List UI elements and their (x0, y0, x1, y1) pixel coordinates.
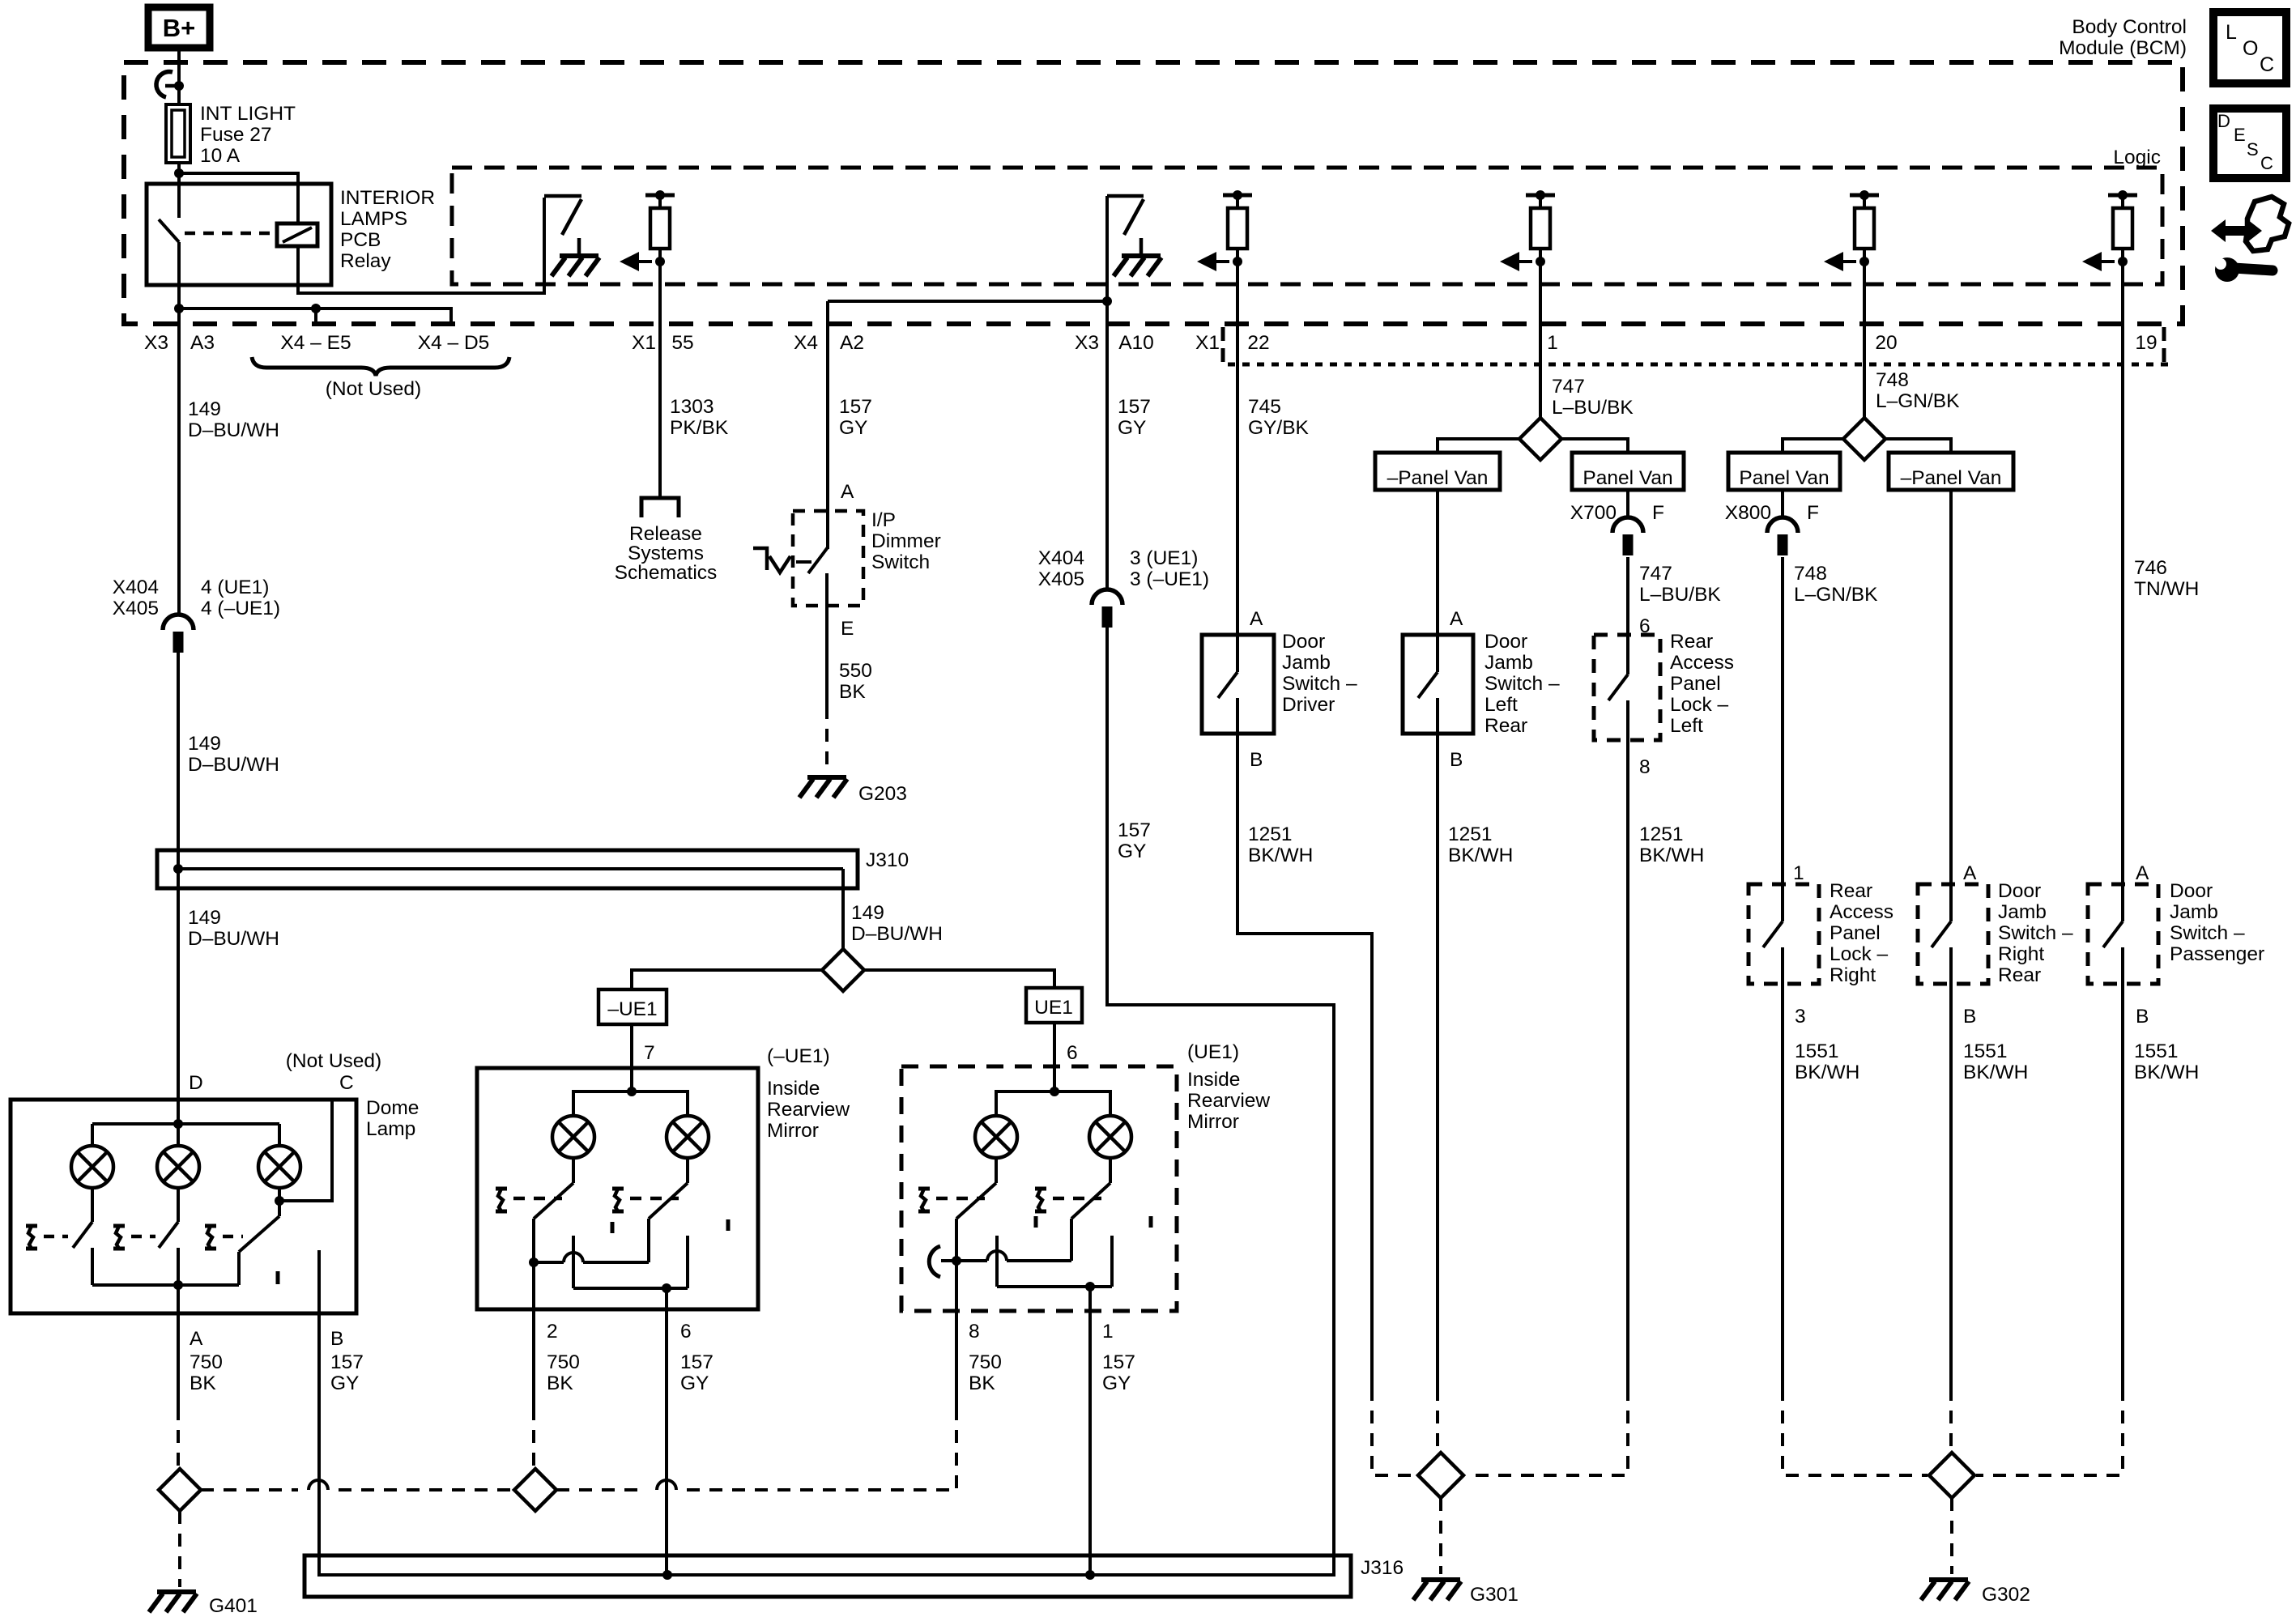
svg-text:BK: BK (190, 1372, 216, 1394)
mirror1 fixed contacts to pin6 (572, 1236, 575, 1288)
svg-text:1551: 1551 (1795, 1040, 1839, 1062)
svg-text:748: 748 (1876, 369, 1909, 391)
svg-text:A: A (2136, 862, 2149, 884)
svg-text:Rear: Rear (1830, 880, 1872, 902)
svg-text:Switch –: Switch – (1282, 673, 1357, 695)
wire 1251 BK/WH left rear (1436, 760, 1439, 1388)
svg-text:GY: GY (1102, 1372, 1131, 1394)
svg-text:Fuse 27: Fuse 27 (200, 124, 272, 146)
svg-text:Lock –: Lock – (1830, 943, 1889, 965)
svg-text:Passenger: Passenger (2170, 943, 2264, 965)
svg-text:750: 750 (969, 1351, 1002, 1373)
svg-text:A2: A2 (840, 332, 864, 354)
svg-text:20: 20 (1875, 332, 1897, 354)
wire Panel Van to X700 (1626, 490, 1629, 517)
I/P dimmer switch dashed box (793, 511, 863, 606)
BCM driver resistor pin 1 (1500, 190, 1555, 271)
svg-text:E: E (2234, 125, 2246, 145)
dimmer wiper arrow (753, 548, 767, 570)
svg-text:–UE1: –UE1 (607, 998, 657, 1020)
svg-text:A3: A3 (190, 332, 215, 354)
svg-text:4 (UE1): 4 (UE1) (201, 577, 269, 598)
svg-text:L–GN/BK: L–GN/BK (1794, 584, 1878, 606)
mirror2 tick marks (1034, 1216, 1038, 1228)
BCM driver resistor pin 19 (2082, 190, 2137, 271)
svg-text:Panel: Panel (1670, 673, 1721, 695)
wire 1251 BK/WH rear access left (1626, 767, 1629, 1388)
wire 157 GY pin A10 (1105, 196, 1109, 589)
svg-text:G203: G203 (858, 783, 907, 805)
svg-text:L–BU/BK: L–BU/BK (1639, 584, 1721, 606)
svg-text:Access: Access (1830, 901, 1893, 923)
svg-text:Systems: Systems (628, 543, 704, 564)
svg-text:B: B (1450, 749, 1463, 771)
svg-text:C: C (2260, 153, 2273, 173)
dome pin B wire (317, 1250, 321, 1577)
svg-text:1: 1 (1547, 332, 1558, 354)
svg-text:747: 747 (1639, 563, 1672, 585)
svg-text:Dimmer: Dimmer (871, 530, 941, 552)
connector X404/X405 on 149 wire (163, 615, 194, 653)
svg-text:1: 1 (1102, 1321, 1114, 1343)
svg-text:B: B (2136, 1006, 2149, 1028)
svg-text:Jamb: Jamb (1485, 652, 1533, 674)
splice diamond dome ground (159, 1469, 201, 1511)
wire 746 TN/WH pin 19 (2121, 262, 2124, 886)
wire 1551 BK/WH right (2121, 1011, 2124, 1388)
dome actuator E 1 (26, 1226, 37, 1249)
dome lamp 1 (71, 1146, 113, 1188)
svg-text:Body Control: Body Control (2072, 16, 2187, 38)
wire B+ to fuse (177, 51, 181, 104)
svg-text:F: F (1652, 502, 1664, 524)
svg-text:1551: 1551 (1963, 1040, 2008, 1062)
ground G401 (149, 1592, 197, 1612)
svg-text:C: C (339, 1072, 354, 1094)
svg-text:Release: Release (629, 523, 702, 545)
mirror2 fixed contacts to pin1 (995, 1236, 999, 1287)
wire A10 continues (1105, 628, 1109, 1006)
dashed pin8 to ground bus (955, 1407, 958, 1490)
mirror1 feed split (627, 1087, 637, 1096)
svg-text:TN/WH: TN/WH (2134, 578, 2199, 600)
svg-text:(–UE1): (–UE1) (767, 1045, 830, 1067)
svg-text:S: S (2247, 139, 2259, 160)
mirror1 right switch (686, 1158, 689, 1183)
svg-text:(Not Used): (Not Used) (286, 1050, 381, 1072)
svg-text:Access: Access (1670, 652, 1734, 674)
wire pin1 157 GY to J316 (1088, 1287, 1092, 1577)
svg-text:Switch –: Switch – (1485, 673, 1560, 695)
svg-text:149: 149 (188, 907, 221, 929)
svg-text:Module (BCM): Module (BCM) (2059, 37, 2187, 59)
svg-text:157: 157 (1118, 819, 1151, 841)
driver switch stub and blade (1236, 635, 1239, 672)
svg-text:–Panel Van: –Panel Van (1901, 467, 2002, 489)
svg-text:3 (UE1): 3 (UE1) (1130, 547, 1198, 569)
dome actuator E 2 (113, 1226, 125, 1249)
mirror2 lamp left (975, 1116, 1017, 1158)
dashed pin A to splice G401 (177, 1407, 180, 1469)
svg-text:X4 – E5: X4 – E5 (280, 332, 351, 354)
wire -Panel Van right to door jamb right rear (1949, 490, 1953, 886)
svg-text:19: 19 (2135, 332, 2157, 354)
mirror2 blade bus to pin8 (952, 1256, 961, 1266)
junction dot A3/X4 link (174, 304, 184, 313)
fuse INT LIGHT Fuse 27 10A (166, 104, 190, 163)
dashed down to G302 splice (1949, 1388, 1953, 1451)
svg-text:B: B (1963, 1006, 1976, 1028)
junction dot J316 left (662, 1570, 672, 1580)
svg-text:Logic: Logic (2113, 147, 2161, 168)
svg-text:X404: X404 (1038, 547, 1084, 569)
svg-text:GY: GY (1118, 840, 1146, 862)
wire 1551 BK/WH middle (1949, 1011, 1953, 1388)
wire 1551 BK/WH right 1 (1781, 1011, 1784, 1388)
dome switch 1 (91, 1188, 94, 1222)
svg-text:D–BU/WH: D–BU/WH (188, 754, 279, 776)
splice bus J310 (157, 850, 858, 888)
svg-text:Switch: Switch (871, 551, 930, 573)
svg-text:X405: X405 (1038, 568, 1084, 590)
svg-text:3: 3 (1795, 1006, 1806, 1028)
mirror2 actuator E left (918, 1189, 930, 1211)
connector strip dotted line below BCM (1228, 363, 2172, 367)
svg-text:GY/BK: GY/BK (1248, 417, 1310, 439)
off-page connector to Release Systems (641, 498, 679, 517)
svg-text:C: C (2260, 53, 2274, 76)
svg-text:157: 157 (680, 1351, 714, 1373)
mirror1 left switch (572, 1158, 575, 1183)
left rear switch stub and blade (1436, 635, 1439, 672)
svg-text:G302: G302 (1982, 1584, 2030, 1606)
svg-text:Left: Left (1485, 694, 1518, 716)
svg-text:Door: Door (1998, 880, 2041, 902)
dashed drop left rear to G301 (1436, 1388, 1439, 1454)
svg-text:O: O (2243, 37, 2258, 60)
svg-text:BK: BK (547, 1372, 573, 1394)
svg-text:747: 747 (1552, 376, 1585, 398)
dashed ground bus dome to mirrors (201, 1488, 298, 1491)
wire to Panel Van right (1783, 439, 1843, 454)
svg-text:PK/BK: PK/BK (670, 417, 729, 439)
ground G203 (799, 777, 847, 798)
svg-text:2: 2 (547, 1321, 558, 1343)
dimmer switch blade (808, 547, 828, 573)
svg-text:I/P: I/P (871, 509, 896, 531)
ground G302 (1921, 1580, 1969, 1600)
svg-text:Relay: Relay (340, 250, 391, 272)
svg-text:750: 750 (547, 1351, 580, 1373)
Body Control Module (BCM) dashed outline (124, 62, 2183, 324)
relay box INTERIOR LAMPS PCB Relay (147, 184, 331, 285)
relay output wire to A3 (177, 242, 181, 615)
wire pin2 750 BK (532, 1262, 535, 1407)
dashed pin2 to splice (532, 1407, 535, 1467)
svg-text:Right: Right (1998, 943, 2044, 965)
svg-text:6: 6 (1067, 1042, 1078, 1064)
service icon arrow (2211, 219, 2262, 242)
svg-text:BK: BK (969, 1372, 995, 1394)
Panel Van option box (1572, 453, 1684, 490)
svg-text:Jamb: Jamb (1998, 901, 2047, 923)
svg-text:Jamb: Jamb (2170, 901, 2218, 923)
svg-text:B: B (330, 1328, 343, 1350)
mirror1 lamp left (552, 1116, 594, 1158)
relay coil (277, 223, 317, 246)
dome actuator E 3 (205, 1226, 216, 1249)
wire 748 pin 20 (1863, 262, 1866, 419)
wire to -Panel Van right (1885, 439, 1951, 454)
splice diamond mirror1 ground (514, 1469, 556, 1511)
svg-text:1251: 1251 (1448, 823, 1493, 845)
svg-text:157: 157 (1118, 396, 1151, 418)
DESC link icon (2213, 109, 2286, 178)
wire 748 to rear access right (1781, 557, 1784, 886)
svg-text:B+: B+ (163, 14, 196, 42)
svg-text:Panel Van: Panel Van (1739, 467, 1829, 489)
wire 149 D-BU/WH (177, 653, 180, 1101)
relay linkage dashes (185, 232, 275, 236)
svg-text:Lamp: Lamp (366, 1118, 415, 1140)
svg-text:GY: GY (680, 1372, 709, 1394)
svg-text:D: D (2217, 111, 2230, 131)
svg-text:A: A (190, 1328, 203, 1350)
svg-text:Schematics: Schematics (615, 562, 718, 584)
door jamb switch right rear dashed box (1918, 884, 1988, 984)
B+ power symbol (148, 7, 210, 48)
svg-text:INTERIOR: INTERIOR (340, 187, 435, 209)
svg-text:Switch –: Switch – (2170, 922, 2245, 944)
svg-text:–Panel Van: –Panel Van (1387, 467, 1489, 489)
svg-text:A: A (1963, 862, 1977, 884)
brace not used (252, 357, 509, 376)
dome lamp box (11, 1100, 356, 1313)
svg-text:Mirror: Mirror (767, 1120, 819, 1142)
dome bottom bus to pin A (92, 1283, 239, 1287)
logic ground switch for relay (544, 196, 581, 256)
svg-text:157: 157 (1102, 1351, 1135, 1373)
relay coil return wire to logic switch (298, 198, 544, 293)
connector X700 F (1612, 517, 1643, 555)
svg-text:157: 157 (839, 396, 872, 418)
wire 1251 BK/WH driver (1237, 760, 1372, 1388)
mirror1 blade bus to pin2 (529, 1257, 539, 1267)
svg-text:LAMPS: LAMPS (340, 208, 407, 230)
svg-text:X404: X404 (113, 577, 159, 598)
wire pin8 750 BK (955, 1261, 958, 1407)
-Panel Van option box (1375, 453, 1500, 490)
svg-text:BK/WH: BK/WH (1795, 1062, 1859, 1083)
svg-text:149: 149 (188, 398, 221, 420)
wire 747 pin 1 (1539, 262, 1542, 419)
svg-text:BK/WH: BK/WH (1963, 1062, 2028, 1083)
dashed dome splice to G401 (178, 1511, 181, 1587)
rear access panel lock right dashed box (1749, 884, 1819, 984)
splice bus J316 (305, 1555, 1351, 1597)
wire -Panel Van to door jamb left rear (1436, 490, 1439, 636)
BCM driver resistor pin 55 (620, 190, 675, 271)
splice diamond G302 (1929, 1453, 1974, 1498)
mirror1 lamp right (667, 1116, 709, 1158)
dome lamp3 to C circuit (278, 1188, 281, 1216)
svg-text:X3: X3 (144, 332, 168, 354)
dashed down to ground G301 (1439, 1498, 1442, 1574)
svg-text:GY: GY (839, 417, 867, 439)
door jamb switch left rear box (1403, 635, 1473, 734)
Panel Van option box right (1728, 453, 1840, 490)
wire A10 to J316 (1107, 1005, 1334, 1577)
svg-text:Rear: Rear (1670, 631, 1713, 653)
svg-text:4 (–UE1): 4 (–UE1) (201, 598, 280, 619)
svg-text:157: 157 (330, 1351, 364, 1373)
svg-text:A10: A10 (1118, 332, 1154, 354)
dashed corner to G302 (1783, 1388, 1928, 1475)
svg-text:X4: X4 (794, 332, 818, 354)
wire link A2 to A10 inside BCM (828, 300, 1107, 303)
wire J310 exit to mirrors (841, 869, 845, 951)
svg-text:3 (–UE1): 3 (–UE1) (1130, 568, 1209, 590)
wire 550 BK to ground (825, 622, 829, 706)
wire to -Panel Van (1438, 439, 1519, 454)
svg-text:8: 8 (1639, 756, 1651, 778)
svg-text:L–GN/BK: L–GN/BK (1876, 390, 1960, 412)
svg-text:X700: X700 (1570, 502, 1617, 524)
junction dot J316 right (1085, 1570, 1095, 1580)
connector separator dashes X1 (1221, 327, 1225, 341)
wire to relay coil (179, 173, 298, 225)
svg-text:A: A (841, 481, 854, 503)
junction dot below fuse (174, 168, 184, 178)
svg-text:B: B (1250, 749, 1263, 771)
svg-text:Switch –: Switch – (1998, 922, 2073, 944)
mirror2 left switch (995, 1158, 998, 1183)
connector separator dashes right of pin 19 (2162, 327, 2166, 341)
-Panel Van option box right (1889, 453, 2013, 490)
svg-text:Rearview: Rearview (1187, 1090, 1270, 1112)
UE1 option box (1026, 988, 1082, 1023)
svg-text:J310: J310 (866, 849, 909, 871)
BCM driver resistor pin 22 (1197, 190, 1252, 271)
svg-text:Door: Door (1282, 631, 1325, 653)
inside rearview mirror dashed box (UE1) (901, 1066, 1177, 1311)
svg-text:A: A (1450, 608, 1463, 630)
svg-text:Rear: Rear (1998, 964, 2041, 986)
svg-text:1251: 1251 (1248, 823, 1293, 845)
clip symbol on B+ wire (156, 71, 173, 97)
svg-text:(Not Used): (Not Used) (326, 378, 421, 400)
rear access panel lock left dashed box (1594, 635, 1660, 740)
svg-text:D–BU/WH: D–BU/WH (188, 419, 279, 441)
wire 745 GY/BK pin 22 (1236, 262, 1239, 636)
wire pin6 157 GY to J316 (665, 1288, 668, 1577)
svg-text:10 A: 10 A (200, 145, 241, 167)
svg-text:Dome: Dome (366, 1097, 419, 1119)
svg-text:X800: X800 (1725, 502, 1771, 524)
mirror2 feed split (1050, 1087, 1059, 1096)
wire to UE1 (864, 970, 1054, 989)
svg-text:55: 55 (671, 332, 693, 354)
splice diamond 149 (822, 949, 864, 991)
svg-text:X3: X3 (1075, 332, 1099, 354)
svg-text:INT LIGHT: INT LIGHT (200, 103, 296, 125)
svg-text:Panel Van: Panel Van (1582, 467, 1672, 489)
svg-text:8: 8 (969, 1321, 980, 1343)
svg-text:Rearview: Rearview (767, 1099, 850, 1121)
connector X800 F (1767, 517, 1798, 555)
dome top bus (177, 1100, 180, 1146)
mirror2 actuator E right (1035, 1189, 1046, 1211)
wire 1303 PK/BK pin 55 (658, 262, 662, 498)
svg-text:Door: Door (1485, 631, 1527, 653)
door jamb switch driver box (1202, 635, 1274, 734)
svg-text:745: 745 (1248, 396, 1281, 418)
dome switch 3 (239, 1216, 279, 1252)
svg-text:Mirror: Mirror (1187, 1111, 1239, 1133)
dashed corner to G302 right (1976, 1388, 2123, 1475)
mirror1 actuator E left (496, 1189, 507, 1211)
svg-text:750: 750 (190, 1351, 223, 1373)
rear access right stub and blade (1781, 884, 1784, 921)
svg-text:G401: G401 (209, 1595, 258, 1617)
dome lamp 2 (157, 1146, 199, 1188)
wire pin 6 (UE1) (1053, 1023, 1056, 1093)
mirror2 lamp right (1089, 1116, 1131, 1158)
svg-text:6: 6 (680, 1321, 692, 1343)
dome switch 2 (177, 1188, 180, 1222)
inside rearview mirror box (-UE1) (477, 1068, 758, 1309)
svg-text:1551: 1551 (2134, 1040, 2179, 1062)
mirror1 actuator E right (612, 1189, 624, 1211)
svg-text:BK/WH: BK/WH (1448, 845, 1513, 866)
svg-text:E: E (841, 618, 854, 640)
dashed down to ground G302 (1950, 1498, 1953, 1574)
service icon part outline (2246, 197, 2289, 251)
svg-text:7: 7 (644, 1042, 655, 1064)
svg-text:Lock –: Lock – (1670, 694, 1729, 716)
dashed drop to G301 splice (1372, 1388, 1418, 1475)
junction dot J310 (173, 864, 183, 874)
svg-text:F: F (1807, 502, 1819, 524)
wire to not-used pins X4-E5 X4-D5 (179, 309, 451, 324)
Logic dashed box (452, 168, 2162, 284)
svg-text:Left: Left (1670, 715, 1703, 737)
relay contact blade (159, 219, 179, 242)
dashed drop rear access left to G301 (1467, 1388, 1628, 1475)
wire fuse to relay (177, 163, 181, 218)
svg-text:1251: 1251 (1639, 823, 1684, 845)
svg-text:GY: GY (1118, 417, 1146, 439)
logic ground switch for A10 (1107, 196, 1144, 256)
dome tick mark (276, 1271, 280, 1284)
passenger stub and blade (2121, 884, 2124, 921)
svg-text:Panel: Panel (1830, 922, 1881, 944)
svg-text:GY: GY (330, 1372, 359, 1394)
svg-text:22: 22 (1247, 332, 1269, 354)
svg-text:1303: 1303 (670, 396, 714, 418)
svg-text:1: 1 (1793, 862, 1804, 884)
splice diamond G301 (1418, 1453, 1463, 1498)
svg-text:A: A (1250, 608, 1263, 630)
mirror2 right switch (1109, 1158, 1112, 1183)
svg-text:BK/WH: BK/WH (2134, 1062, 2199, 1083)
rear access left stub and blade (1626, 635, 1629, 674)
svg-text:BK: BK (839, 681, 866, 703)
svg-text:BK/WH: BK/WH (1248, 845, 1313, 866)
svg-text:748: 748 (1794, 563, 1827, 585)
svg-text:D: D (189, 1072, 203, 1094)
svg-text:D–BU/WH: D–BU/WH (851, 923, 943, 945)
